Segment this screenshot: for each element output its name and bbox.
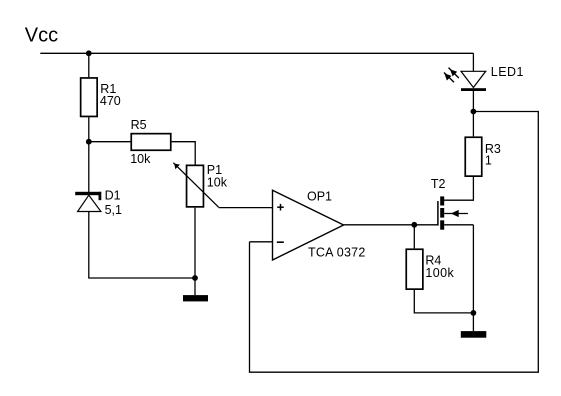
wire LED junction to R3 [472, 112, 474, 137]
wire R5 to P1 top [172, 142, 196, 165]
wire R3 to T2 drain [444, 177, 473, 200]
svg-text:OP1: OP1 [307, 189, 332, 203]
svg-text:Vcc: Vcc [25, 25, 58, 47]
junction LED1 / R3 / feedback [471, 109, 477, 115]
ground (left) [183, 278, 208, 301]
zener diode D1 [75, 189, 122, 217]
wire T2 source down to ground node [472, 225, 474, 313]
svg-text:10k: 10k [207, 175, 228, 189]
svg-text:T2: T2 [431, 177, 446, 191]
svg-text:5,1: 5,1 [105, 203, 122, 217]
resistor R4 [406, 249, 454, 289]
wire junction to D1 [88, 142, 90, 192]
wire op-amp output [344, 224, 415, 226]
LED LED1 [444, 65, 524, 111]
resistor R1 [81, 78, 121, 117]
potentiometer P1 [173, 163, 227, 208]
svg-text:TCA 0372: TCA 0372 [308, 246, 366, 260]
svg-text:LED1: LED1 [491, 65, 524, 79]
svg-text:10k: 10k [130, 152, 151, 166]
resistor R5 [130, 118, 171, 166]
wire op-amp inverting input [250, 241, 273, 243]
wire Vcc rail down to LED1 [472, 53, 474, 71]
wire P1 wiper to op-amp noninverting input [219, 207, 273, 209]
wire junction to R5 [89, 141, 131, 143]
wire top Vcc rail [40, 52, 473, 54]
junction R1 / R5 / D1 [86, 139, 92, 145]
junction P1 / D1 / ground [192, 275, 198, 281]
wire D1 anode to ground node [89, 212, 195, 279]
wire R1 top [88, 53, 90, 77]
wire R4 bottom to source node [414, 290, 473, 313]
junction Vcc rail / R1 [86, 50, 92, 56]
wire R4 top [413, 225, 415, 249]
ground (right) [461, 313, 487, 338]
wire feedback loop [250, 112, 539, 373]
transistor T2 [431, 177, 468, 230]
svg-text:R5: R5 [131, 118, 147, 132]
op-amp OP1 [273, 189, 366, 260]
resistor R3 [465, 137, 501, 176]
junction R4 / T2 source / ground [471, 310, 477, 316]
svg-text:D1: D1 [105, 189, 121, 203]
wire T2 gate lead [414, 224, 438, 226]
wire T2 source lead [444, 224, 473, 226]
wire P1 bottom [194, 208, 196, 278]
wire R1 bottom [88, 116, 90, 141]
svg-text:470: 470 [100, 94, 121, 108]
svg-text:1: 1 [485, 154, 492, 168]
junction output / R4 / gate [411, 222, 417, 228]
svg-text:100k: 100k [425, 266, 454, 280]
